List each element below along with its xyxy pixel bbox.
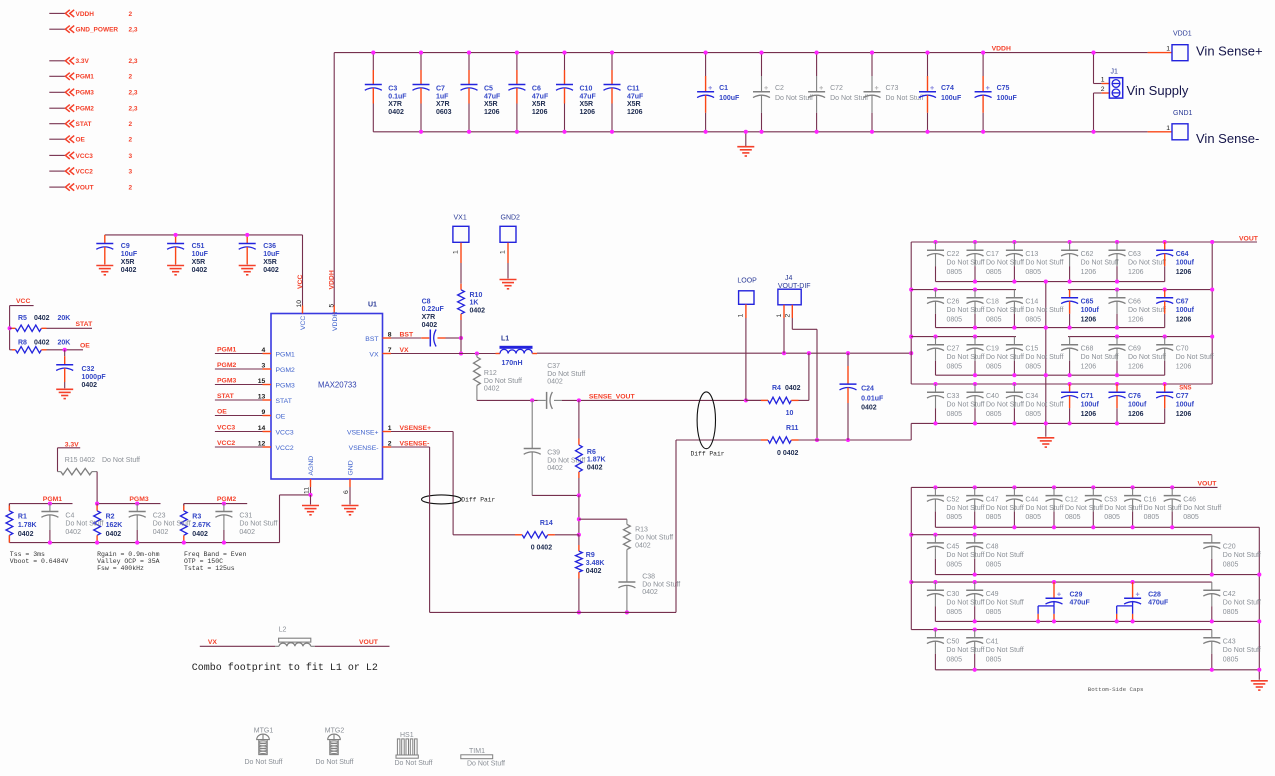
svg-text:0805: 0805	[986, 316, 1002, 323]
svg-text:4: 4	[262, 347, 266, 354]
capacitor C49	[966, 580, 1024, 623]
resistor R14	[515, 520, 579, 551]
ground grid upper	[1037, 438, 1054, 447]
svg-text:Do Not Stuff: Do Not Stuff	[947, 307, 985, 314]
svg-text:VOUT: VOUT	[1239, 235, 1259, 242]
svg-text:VDDH: VDDH	[332, 312, 339, 331]
wire grid row 1 bottom	[936, 281, 1165, 283]
svg-text:0.22uF: 0.22uF	[422, 306, 445, 313]
svg-text:0805: 0805	[946, 609, 962, 616]
wire lower grid row B top	[911, 534, 1212, 536]
svg-text:C45: C45	[946, 544, 959, 551]
capacitor C1	[697, 51, 740, 134]
svg-text:0402: 0402	[34, 339, 50, 346]
capacitor C26	[927, 288, 985, 328]
capacitor C72	[808, 51, 868, 134]
svg-text:2: 2	[129, 185, 133, 192]
svg-text:MTG1: MTG1	[254, 728, 274, 735]
svg-text:1206: 1206	[1128, 411, 1144, 418]
svg-text:C20: C20	[1223, 544, 1236, 551]
svg-text:VX: VX	[369, 352, 379, 359]
svg-text:Do Not Stuff: Do Not Stuff	[315, 759, 353, 766]
capacitor C74	[919, 51, 962, 134]
svg-text:Do Not Stuff: Do Not Stuff	[946, 647, 984, 654]
svg-text:7: 7	[388, 347, 392, 354]
resistor R13	[579, 519, 673, 558]
svg-text:Do Not Stuff: Do Not Stuff	[986, 600, 1024, 607]
capacitor C73	[864, 51, 924, 134]
svg-text:1206: 1206	[1176, 411, 1192, 418]
capacitor C70	[1156, 335, 1214, 376]
wire grid right vertical	[1210, 240, 1214, 384]
svg-text:2: 2	[129, 137, 133, 144]
wire J1 pin 2 to GND rail	[1091, 86, 1109, 134]
wire PGM3 rail	[95, 496, 160, 506]
svg-text:R14: R14	[540, 520, 553, 527]
svg-text:47uF: 47uF	[580, 93, 597, 100]
svg-text:100uF: 100uF	[941, 95, 962, 102]
svg-text:Vin Sense-: Vin Sense-	[1196, 131, 1259, 146]
mounting hole MTG2	[315, 728, 353, 766]
off-page connector PGM3	[49, 89, 138, 97]
svg-text:VDDH: VDDH	[76, 11, 95, 18]
svg-text:47uF: 47uF	[484, 93, 501, 100]
svg-text:8: 8	[388, 331, 392, 338]
mounting hole MTG1	[244, 728, 282, 766]
svg-text:VCC: VCC	[16, 298, 30, 305]
resistor R2	[94, 504, 123, 545]
svg-text:Do Not Stuff: Do Not Stuff	[484, 378, 522, 385]
svg-text:Do Not Stuff: Do Not Stuff	[102, 457, 140, 464]
capacitor C50	[927, 628, 985, 670]
svg-text:1206: 1206	[1081, 411, 1097, 418]
svg-text:Do Not Stuff: Do Not Stuff	[244, 759, 282, 766]
svg-text:R4: R4	[772, 385, 781, 392]
svg-text:0805: 0805	[1025, 363, 1041, 370]
resistor R10	[458, 284, 486, 338]
svg-text:1206: 1206	[1081, 363, 1097, 370]
svg-text:C63: C63	[1128, 251, 1141, 258]
svg-text:0805: 0805	[1223, 562, 1239, 569]
wire grid row 2 top	[911, 289, 1212, 291]
svg-text:L1: L1	[501, 335, 509, 342]
svg-text:C6: C6	[532, 86, 541, 93]
svg-text:VSENSE+: VSENSE+	[400, 425, 432, 432]
U1 pin 10 VCC	[296, 275, 307, 330]
svg-text:Do Not Stuff: Do Not Stuff	[1144, 505, 1182, 512]
svg-text:170nH: 170nH	[502, 360, 523, 367]
capacitor C5	[461, 51, 502, 134]
svg-text:11: 11	[304, 487, 311, 494]
net label VDDH	[992, 45, 1011, 52]
svg-text:10uF: 10uF	[263, 251, 280, 258]
svg-text:2: 2	[129, 11, 133, 18]
svg-text:1: 1	[776, 314, 783, 318]
svg-text:GND2: GND2	[501, 215, 521, 222]
svg-text:C73: C73	[886, 85, 899, 92]
svg-text:R3: R3	[192, 513, 201, 520]
svg-text:R2: R2	[106, 513, 115, 520]
svg-text:R12: R12	[484, 370, 497, 377]
capacitor C46	[1164, 485, 1222, 529]
svg-text:5: 5	[328, 304, 335, 308]
svg-text:1: 1	[388, 425, 392, 432]
wire VOUT power rail	[537, 351, 913, 355]
svg-text:R6: R6	[587, 449, 596, 456]
svg-text:0805: 0805	[946, 656, 962, 663]
svg-text:C5: C5	[484, 86, 493, 93]
svg-text:PGM2: PGM2	[217, 362, 236, 369]
svg-text:0805: 0805	[947, 363, 963, 370]
wire R15 to PGM3	[96, 472, 98, 504]
svg-text:Do Not Stuff: Do Not Stuff	[1081, 260, 1119, 267]
svg-text:0402: 0402	[547, 465, 563, 472]
svg-text:0402: 0402	[192, 531, 208, 538]
svg-text:X5R: X5R	[192, 259, 206, 266]
svg-text:C17: C17	[986, 251, 999, 258]
svg-text:14: 14	[258, 425, 266, 432]
capacitor C32	[56, 350, 106, 399]
svg-text:X7R: X7R	[388, 101, 402, 108]
svg-text:C34: C34	[1025, 393, 1038, 400]
svg-text:20K: 20K	[58, 315, 71, 322]
capacitor C40	[967, 382, 1025, 426]
capacitor C9	[96, 235, 138, 275]
svg-text:C51: C51	[192, 243, 205, 250]
svg-text:Diff Pair: Diff Pair	[691, 450, 725, 457]
svg-text:1: 1	[453, 250, 460, 254]
svg-text:Do Not Stuff: Do Not Stuff	[239, 520, 277, 527]
svg-text:TIM1: TIM1	[469, 748, 485, 755]
capacitor C43	[1203, 630, 1261, 672]
svg-text:0402: 0402	[470, 307, 486, 314]
svg-text:C46: C46	[1183, 496, 1196, 503]
svg-text:Do Not Stuff: Do Not Stuff	[947, 354, 985, 361]
ground top bus	[737, 130, 754, 156]
svg-text:2,3: 2,3	[129, 90, 138, 97]
svg-text:0402: 0402	[121, 267, 137, 274]
capacitor C6	[508, 51, 549, 134]
svg-text:C40: C40	[986, 393, 999, 400]
svg-text:Do Not Stuff: Do Not Stuff	[1025, 505, 1063, 512]
svg-text:C15: C15	[1025, 346, 1038, 353]
svg-text:0805: 0805	[1183, 514, 1199, 521]
svg-text:0603: 0603	[436, 109, 452, 116]
wire VDDH rail	[334, 52, 1147, 54]
svg-text:0805: 0805	[1025, 316, 1041, 323]
resistor R5	[8, 315, 71, 331]
wire SENSE row left	[477, 398, 538, 402]
svg-text:Do Not Stuff: Do Not Stuff	[946, 552, 984, 559]
capacitor C24	[840, 353, 884, 440]
svg-text:0402: 0402	[484, 386, 500, 393]
svg-text:Do Not Stuff: Do Not Stuff	[947, 402, 985, 409]
svg-text:OE: OE	[217, 409, 227, 416]
svg-text:PGM1: PGM1	[43, 496, 62, 503]
U1 pin 7 VX	[369, 347, 409, 359]
svg-text:2: 2	[129, 121, 133, 128]
svg-text:100uF: 100uF	[719, 95, 740, 102]
off-page connector GND_POWER	[49, 26, 138, 34]
svg-text:Vin Supply: Vin Supply	[1127, 83, 1189, 98]
svg-text:Do Not Stuff: Do Not Stuff	[1104, 505, 1142, 512]
svg-text:C33: C33	[947, 393, 960, 400]
U1 pin 14 VCC3	[215, 425, 294, 437]
svg-text:VCC3: VCC3	[276, 430, 294, 437]
capacitor C41	[966, 628, 1024, 672]
capacitor C11	[604, 51, 645, 134]
svg-text:0805: 0805	[1025, 269, 1041, 276]
svg-text:VCC3: VCC3	[217, 425, 235, 432]
U1 pin 11 AGND	[304, 456, 315, 494]
svg-text:VCC3: VCC3	[76, 153, 94, 160]
wire grid row 4 bottom	[911, 422, 1164, 424]
svg-text:BST: BST	[365, 336, 378, 343]
svg-text:Do Not Stuff: Do Not Stuff	[1025, 307, 1063, 314]
svg-text:Bottom-Side Caps: Bottom-Side Caps	[1088, 686, 1144, 693]
svg-text:47uF: 47uF	[627, 93, 644, 100]
svg-text:0805: 0805	[986, 363, 1002, 370]
capacitor C8	[391, 299, 463, 347]
svg-text:47uF: 47uF	[532, 93, 549, 100]
svg-text:2: 2	[1101, 86, 1105, 93]
svg-text:C53: C53	[1104, 496, 1117, 503]
svg-text:1.78K: 1.78K	[18, 522, 37, 529]
capacitor C4	[41, 502, 103, 545]
svg-text:0402: 0402	[34, 315, 50, 322]
svg-text:X7R: X7R	[422, 314, 436, 321]
svg-text:C67: C67	[1176, 299, 1189, 306]
svg-text:0805: 0805	[1025, 514, 1041, 521]
svg-text:100uF: 100uF	[997, 95, 1018, 102]
note PGM2 values	[184, 551, 247, 572]
svg-text:100uf: 100uf	[1176, 260, 1195, 267]
net label VX L2	[200, 639, 275, 646]
svg-text:VX: VX	[208, 639, 218, 646]
svg-text:Do Not Stuff: Do Not Stuff	[986, 354, 1024, 361]
U1 pin 4 PGM1	[215, 347, 295, 359]
svg-text:VX: VX	[400, 347, 410, 354]
svg-text:3: 3	[262, 362, 266, 369]
svg-text:GND1: GND1	[1173, 110, 1193, 117]
svg-text:C12: C12	[1065, 496, 1078, 503]
svg-text:Do Not Stuff: Do Not Stuff	[1223, 647, 1261, 654]
svg-text:VOUT: VOUT	[76, 185, 94, 192]
svg-text:1: 1	[1101, 77, 1105, 84]
wire SENSE_VOUT	[562, 394, 768, 403]
connector J1 Vin Supply	[1109, 69, 1189, 99]
svg-text:Tss = 3ms: Tss = 3ms	[10, 551, 45, 558]
svg-text:X7R: X7R	[436, 101, 450, 108]
svg-text:STAT: STAT	[276, 398, 292, 405]
svg-text:Do Not Stuff: Do Not Stuff	[394, 760, 432, 767]
inductor L2	[275, 627, 315, 647]
capacitor C65	[1061, 290, 1099, 330]
svg-text:Do Not Stuff: Do Not Stuff	[1025, 354, 1063, 361]
svg-text:Do Not Stuff: Do Not Stuff	[1065, 505, 1103, 512]
svg-text:Valley OCP = 35A: Valley OCP = 35A	[97, 558, 160, 565]
svg-text:Do Not Stuff: Do Not Stuff	[467, 760, 505, 767]
svg-text:0805: 0805	[947, 316, 963, 323]
svg-text:0402: 0402	[263, 267, 279, 274]
capacitor C52	[927, 485, 985, 527]
svg-text:Do Not Stuff: Do Not Stuff	[946, 505, 984, 512]
capacitor C69	[1109, 335, 1167, 378]
svg-text:Do Not Stuff: Do Not Stuff	[947, 260, 985, 267]
svg-text:Do Not Stuff: Do Not Stuff	[1025, 260, 1063, 267]
svg-text:C2: C2	[775, 85, 784, 92]
svg-text:0402: 0402	[82, 382, 98, 389]
connector VDD1 Vin Sense+	[1148, 31, 1263, 61]
capacitor C38	[618, 558, 680, 614]
svg-text:Vboot = 0.6484V: Vboot = 0.6484V	[10, 558, 69, 565]
svg-text:VSENSE-: VSENSE-	[349, 445, 379, 452]
svg-text:0805: 0805	[986, 269, 1002, 276]
svg-text:R1: R1	[18, 513, 27, 520]
wire lower grid row D bottom	[935, 669, 1259, 671]
svg-text:C38: C38	[642, 574, 655, 581]
svg-text:Tstat = 125us: Tstat = 125us	[184, 565, 235, 572]
svg-text:Do Not Stuff: Do Not Stuff	[1223, 600, 1261, 607]
svg-text:0805: 0805	[1223, 656, 1239, 663]
svg-text:1uF: 1uF	[436, 93, 449, 100]
svg-text:OE: OE	[276, 414, 286, 421]
wire PGM1 rail	[9, 496, 72, 511]
capacitor C51	[167, 233, 209, 275]
op-amp U1 MAX20733 body	[271, 301, 383, 479]
inductor L1	[496, 335, 538, 367]
svg-text:10: 10	[786, 410, 794, 417]
wire lower grid row A bottom	[935, 526, 1259, 528]
svg-text:X5R: X5R	[532, 101, 546, 108]
wire J4 pin2 to R11	[792, 318, 819, 442]
svg-text:15: 15	[258, 378, 266, 385]
svg-text:VCC: VCC	[300, 316, 307, 330]
svg-text:Do Not Stuff: Do Not Stuff	[547, 371, 585, 378]
svg-text:J4: J4	[785, 275, 793, 282]
svg-text:VDDH: VDDH	[329, 270, 336, 289]
svg-text:R9: R9	[586, 552, 595, 559]
capacitor C76	[1109, 382, 1147, 426]
capacitor C16	[1124, 485, 1182, 529]
svg-text:1206: 1206	[580, 109, 596, 116]
svg-text:AGND: AGND	[308, 456, 315, 476]
svg-text:PGM3: PGM3	[76, 90, 95, 97]
svg-text:1: 1	[1166, 125, 1170, 132]
capacitor C10	[556, 51, 597, 134]
capacitor C18	[967, 288, 1025, 330]
svg-text:C42: C42	[1223, 591, 1236, 598]
svg-text:PGM1: PGM1	[276, 352, 295, 359]
svg-text:C22: C22	[947, 251, 960, 258]
capacitor C37	[538, 363, 585, 409]
svg-text:C68: C68	[1081, 346, 1094, 353]
resistor R4	[746, 353, 809, 417]
svg-text:13: 13	[258, 393, 266, 400]
svg-text:C16: C16	[1144, 496, 1157, 503]
svg-text:C48: C48	[986, 544, 999, 551]
svg-text:GND_POWER: GND_POWER	[76, 27, 119, 34]
off-page connector STAT	[49, 120, 132, 128]
svg-text:0805: 0805	[986, 656, 1002, 663]
svg-text:6: 6	[343, 490, 350, 494]
off-page connector VOUT	[49, 184, 132, 192]
svg-text:2: 2	[129, 74, 133, 81]
capacitor C27	[927, 335, 985, 376]
svg-text:C18: C18	[986, 299, 999, 306]
svg-text:Do Not Stuff: Do Not Stuff	[642, 581, 680, 588]
svg-text:C65: C65	[1081, 299, 1094, 306]
net label VOUT upper	[1239, 235, 1259, 242]
svg-text:PGM3: PGM3	[129, 496, 148, 503]
svg-text:Diff Pair: Diff Pair	[461, 496, 495, 503]
wire VOUT rail grid row 1	[911, 242, 1257, 290]
svg-text:PGM2: PGM2	[217, 496, 236, 503]
svg-text:VCC2: VCC2	[276, 445, 294, 452]
svg-text:C26: C26	[947, 299, 960, 306]
svg-text:Freq Band = Even: Freq Band = Even	[184, 551, 247, 558]
capacitor C15	[1006, 337, 1064, 378]
svg-text:C43: C43	[1223, 639, 1236, 646]
capacitor C39	[524, 400, 586, 495]
svg-text:0402: 0402	[642, 589, 658, 596]
resistor R6	[576, 400, 606, 497]
svg-text:Do Not Stuff: Do Not Stuff	[986, 552, 1024, 559]
U1 pin 15 PGM3	[215, 378, 295, 390]
svg-text:0805: 0805	[986, 411, 1002, 418]
svg-text:C37: C37	[547, 363, 560, 370]
svg-text:C36: C36	[263, 243, 276, 250]
svg-text:10: 10	[296, 300, 303, 308]
wire to J1 pin 1	[1091, 51, 1109, 84]
svg-text:0402: 0402	[192, 267, 208, 274]
svg-text:VOUT: VOUT	[1198, 480, 1218, 487]
svg-text:10uF: 10uF	[192, 251, 209, 258]
svg-text:0805: 0805	[946, 562, 962, 569]
wire AGND	[302, 487, 319, 515]
off-page connector OE	[49, 136, 132, 144]
svg-text:C70: C70	[1176, 346, 1189, 353]
U1 pin 1 VSENSE+	[347, 425, 431, 437]
wire VDDH to U1 pin 5	[333, 53, 335, 306]
svg-text:C9: C9	[121, 243, 130, 250]
off-page connector VCC3	[49, 152, 132, 160]
capacitor C23	[129, 502, 191, 545]
wire lower grid row C top	[911, 581, 1212, 583]
svg-text:2: 2	[785, 314, 792, 318]
wire R6 to R14 node	[577, 495, 581, 536]
capacitor C42	[1203, 582, 1261, 623]
wire grid row 4 top	[911, 383, 1212, 385]
wire VCC rail	[105, 235, 303, 306]
off-page connector PGM2	[49, 105, 138, 113]
svg-text:VX1: VX1	[454, 215, 467, 222]
svg-text:0805: 0805	[1223, 609, 1239, 616]
svg-text:C49: C49	[986, 591, 999, 598]
wire STAT	[47, 321, 94, 328]
U1 pin 12 VCC2	[215, 440, 294, 452]
svg-text:HS1: HS1	[400, 732, 414, 739]
svg-text:0402: 0402	[65, 529, 81, 536]
capacitor C31	[215, 502, 277, 545]
svg-text:Do Not Stuff: Do Not Stuff	[775, 95, 813, 102]
ground GND pin	[342, 487, 359, 515]
wire BST to VX row	[459, 338, 463, 356]
svg-text:C50: C50	[946, 639, 959, 646]
capacitor C2	[753, 51, 813, 134]
svg-text:0402: 0402	[635, 542, 651, 549]
heatsink HS1	[394, 732, 432, 767]
